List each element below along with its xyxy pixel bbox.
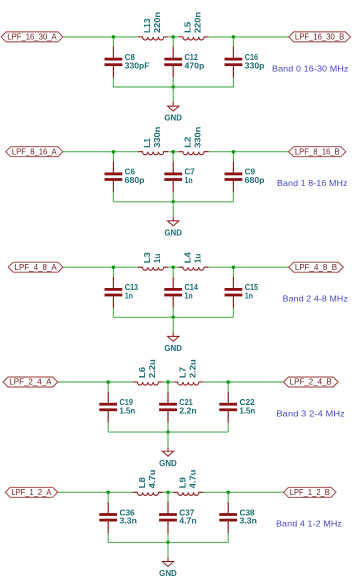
svg-text:GND: GND	[159, 459, 177, 468]
svg-text:LPF_16_30_A: LPF_16_30_A	[7, 33, 57, 42]
svg-text:Band 3 2-4 MHz: Band 3 2-4 MHz	[276, 409, 345, 418]
svg-text:2.2n: 2.2n	[179, 406, 197, 415]
svg-text:Band 1 8-16 MHz: Band 1 8-16 MHz	[277, 179, 348, 188]
svg-text:L8: L8	[138, 476, 147, 488]
svg-text:L5: L5	[184, 21, 193, 33]
svg-text:3.3n: 3.3n	[120, 517, 138, 526]
svg-text:1n: 1n	[185, 176, 193, 185]
svg-text:330pF: 330pF	[125, 61, 150, 70]
svg-text:L9: L9	[178, 476, 187, 488]
svg-text:2.2u: 2.2u	[188, 359, 197, 378]
svg-text:LPF_2_4_B: LPF_2_4_B	[290, 378, 332, 387]
svg-text:LPF_1_2_B: LPF_1_2_B	[290, 488, 330, 497]
svg-text:LPF_8_16_A: LPF_8_16_A	[12, 147, 58, 156]
svg-text:LPF_4_8_B: LPF_4_8_B	[295, 263, 337, 272]
svg-text:L6: L6	[138, 366, 147, 378]
svg-text:Band 0 16-30 MHz: Band 0 16-30 MHz	[272, 64, 349, 73]
svg-text:3.3n: 3.3n	[240, 517, 258, 526]
svg-text:680p: 680p	[125, 176, 145, 185]
svg-text:Band 2 4-8 MHz: Band 2 4-8 MHz	[283, 295, 348, 304]
svg-text:470p: 470p	[185, 61, 205, 70]
svg-text:Band 4 1-2 MHz: Band 4 1-2 MHz	[276, 520, 342, 529]
svg-text:1.5n: 1.5n	[120, 406, 136, 415]
svg-text:330n: 330n	[194, 127, 203, 148]
svg-text:2.2u: 2.2u	[148, 359, 157, 378]
svg-text:LPF_2_4_A: LPF_2_4_A	[9, 378, 52, 387]
svg-text:330n: 330n	[153, 127, 162, 148]
svg-text:L7: L7	[178, 366, 187, 378]
svg-text:LPF_4_8_A: LPF_4_8_A	[15, 263, 58, 272]
svg-text:GND: GND	[164, 344, 182, 353]
svg-text:1n: 1n	[125, 292, 133, 301]
svg-text:LPF_16_30_B: LPF_16_30_B	[295, 33, 344, 42]
svg-text:L1: L1	[143, 137, 152, 147]
svg-text:220n: 220n	[153, 12, 162, 33]
svg-text:L13: L13	[143, 18, 152, 33]
svg-text:220n: 220n	[194, 12, 203, 33]
svg-text:LPF_8_16_B: LPF_8_16_B	[295, 147, 340, 156]
svg-text:330p: 330p	[245, 61, 265, 70]
svg-text:LPF_1_2_A: LPF_1_2_A	[11, 488, 52, 497]
svg-text:4.7u: 4.7u	[148, 469, 157, 488]
svg-text:4.7u: 4.7u	[188, 469, 197, 488]
svg-text:GND: GND	[164, 229, 182, 238]
svg-text:1.5n: 1.5n	[240, 406, 256, 415]
svg-text:1u: 1u	[194, 253, 203, 263]
svg-text:L3: L3	[143, 251, 152, 263]
svg-text:GND: GND	[164, 114, 182, 123]
svg-text:L4: L4	[184, 251, 193, 263]
svg-text:4.7n: 4.7n	[179, 517, 197, 526]
svg-text:680p: 680p	[245, 176, 265, 185]
svg-text:1n: 1n	[185, 292, 193, 301]
svg-text:1u: 1u	[153, 253, 162, 263]
svg-text:L2: L2	[184, 136, 193, 148]
svg-text:GND: GND	[159, 569, 177, 578]
svg-text:1n: 1n	[245, 292, 253, 301]
